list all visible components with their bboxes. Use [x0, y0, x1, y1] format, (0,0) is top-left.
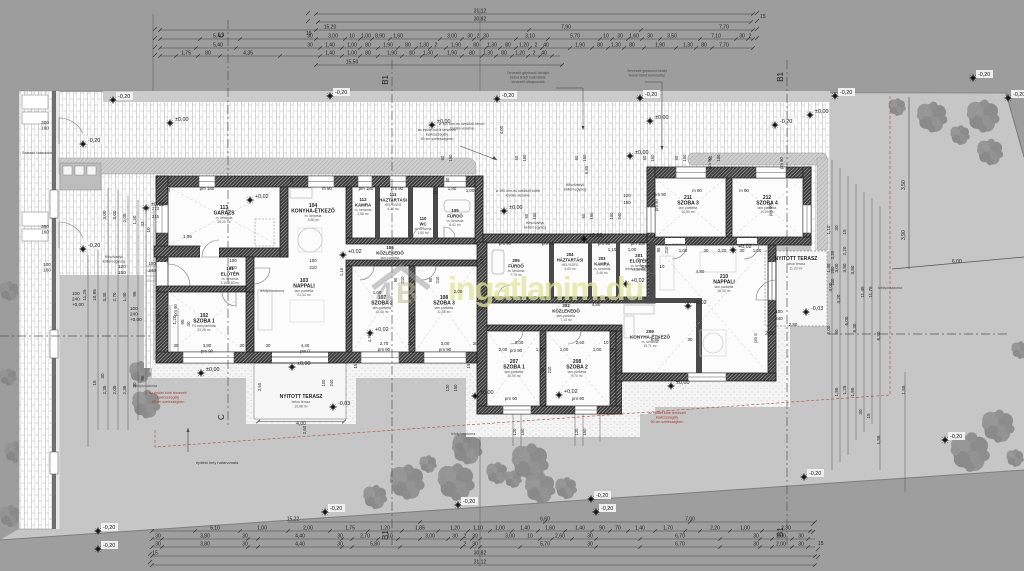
- section line B1b vertical dash-dot: [786, 60, 788, 545]
- wall garage south-left: [154, 246, 200, 257]
- svg-text:60: 60: [440, 155, 445, 160]
- svg-text:1,00: 1,00: [593, 347, 602, 352]
- level marker -0,20 at 775,125: [771, 121, 779, 129]
- svg-text:30: 30: [753, 541, 759, 547]
- svg-text:10: 10: [349, 33, 355, 39]
- svg-text:Szakadó kukaraktár: Szakadó kukaraktár: [22, 151, 53, 155]
- svg-text:kültéri egység: kültéri egység: [564, 187, 586, 191]
- svg-text:106: 106: [386, 245, 394, 250]
- svg-text:30: 30: [242, 541, 248, 547]
- svg-text:7,90: 7,90: [561, 24, 571, 30]
- room label 112 KAMRA: [355, 197, 372, 216]
- house floor right unit: [647, 167, 811, 245]
- svg-text:30: 30: [798, 533, 804, 539]
- svg-text:100: 100: [148, 261, 156, 266]
- svg-text:±0,00: ±0,00: [509, 205, 522, 211]
- svg-text:1,10: 1,10: [473, 525, 483, 531]
- level marker -0,20 at 98,531: [94, 527, 102, 535]
- left vertical dimension cluster: [88, 188, 178, 447]
- svg-text:30: 30: [858, 409, 863, 415]
- svg-text:60: 60: [514, 155, 519, 160]
- svg-text:112: 112: [359, 197, 367, 202]
- svg-text:1,55: 1,55: [876, 435, 881, 444]
- svg-text:2,00: 2,00: [776, 541, 786, 547]
- neighbour building strip (brick hatch): [19, 91, 52, 529]
- eaves band right side arm: [817, 158, 828, 250]
- svg-text:C: C: [217, 414, 226, 420]
- door szoba208 door: [568, 331, 581, 344]
- svg-text:3,80: 3,80: [842, 263, 847, 272]
- svg-text:160: 160: [41, 229, 49, 234]
- svg-text:5,80: 5,80: [370, 541, 380, 547]
- svg-text:+0,02: +0,02: [375, 327, 389, 333]
- svg-text:150: 150: [532, 212, 537, 220]
- svg-text:150: 150: [522, 154, 527, 162]
- level marker -0,20 at 640,98: [636, 94, 644, 102]
- svg-text:100: 100: [72, 291, 80, 296]
- svg-text:1,70: 1,70: [164, 313, 169, 322]
- svg-text:-0,20: -0,20: [780, 119, 792, 125]
- svg-text:KAMRA: KAMRA: [355, 202, 372, 207]
- level marker ±0,00 at 146,208: [142, 204, 150, 212]
- eaves overhang band left unit: [59, 158, 476, 174]
- room diagonals szoba211: [655, 178, 726, 237]
- svg-text:7,70: 7,70: [719, 42, 729, 48]
- svg-text:30: 30: [740, 248, 745, 253]
- svg-text:30,82: 30,82: [474, 550, 487, 556]
- svg-text:30: 30: [834, 225, 839, 231]
- tree 2: [917, 102, 948, 133]
- svg-text:pm 180: pm 180: [359, 186, 374, 191]
- svg-text:203: 203: [599, 256, 607, 261]
- svg-text:13,28 m²: 13,28 m²: [197, 328, 211, 332]
- svg-text:6,00: 6,00: [844, 316, 849, 325]
- svg-text:210: 210: [547, 366, 552, 374]
- dimension chain top row3: [158, 24, 755, 31]
- svg-text:pm 0: pm 0: [753, 333, 758, 343]
- svg-text:+0,00: +0,00: [72, 302, 84, 307]
- tree 1: [888, 98, 905, 116]
- room diagonals szoba208: [546, 331, 610, 406]
- house floor middle section: [477, 234, 655, 414]
- svg-text:240: 240: [148, 268, 156, 273]
- svg-text:9,70 m²: 9,70 m²: [571, 374, 583, 378]
- paved area around left terrace: [246, 356, 356, 424]
- door furdo205 door: [498, 285, 510, 297]
- door entry west: [168, 264, 190, 286]
- svg-text:4,70: 4,70: [367, 333, 372, 342]
- svg-text:10: 10: [387, 533, 393, 539]
- level marker ±0,00 at 584,239: [580, 235, 588, 243]
- svg-text:4,40: 4,40: [295, 541, 305, 547]
- svg-text:30: 30: [174, 343, 179, 348]
- svg-text:2,00: 2,00: [826, 325, 831, 334]
- tree 10: [419, 455, 436, 473]
- svg-text:150: 150: [453, 384, 458, 392]
- svg-text:273: 273: [152, 206, 160, 211]
- svg-text:Hőszivattyú: Hőszivattyú: [526, 221, 545, 225]
- svg-text:kifolyócsatorna: kifolyócsatorna: [878, 286, 902, 290]
- svg-text:pm 0: pm 0: [300, 349, 310, 354]
- svg-text:2,20: 2,20: [710, 525, 720, 531]
- svg-text:2,70: 2,70: [112, 292, 117, 301]
- svg-text:beton terasz: beton terasz: [292, 400, 311, 404]
- svg-text:1,40: 1,40: [520, 525, 530, 531]
- terrace sliding door gap: [272, 353, 328, 363]
- svg-text:pm 90: pm 90: [768, 204, 773, 216]
- svg-text:60: 60: [674, 155, 679, 160]
- svg-text:30: 30: [337, 533, 343, 539]
- svg-text:210: 210: [410, 316, 415, 324]
- svg-text:6,30: 6,30: [876, 331, 881, 340]
- svg-text:30: 30: [289, 177, 294, 182]
- svg-text:30: 30: [473, 341, 478, 346]
- svg-text:10,90 m²: 10,90 m²: [507, 374, 521, 378]
- level marker +0,02 at 559,395: [555, 391, 563, 399]
- svg-text:B1: B1: [776, 71, 785, 81]
- svg-text:-0,20: -0,20: [103, 525, 115, 531]
- svg-text:100: 100: [229, 258, 237, 263]
- svg-text:90: 90: [656, 247, 661, 252]
- room label 106 KÖZLEKEDŐ: [376, 245, 404, 264]
- svg-text:90: 90: [410, 297, 415, 302]
- room label 109 FÜRDŐ: [447, 208, 464, 227]
- room diagonals garage: [168, 187, 280, 246]
- tree 13: [453, 433, 473, 453]
- svg-text:30: 30: [798, 541, 804, 547]
- svg-text:30: 30: [445, 177, 450, 182]
- svg-text:31,12: 31,12: [474, 559, 487, 565]
- svg-text:30: 30: [100, 373, 105, 379]
- svg-text:KÖZLEKEDŐ: KÖZLEKEDŐ: [552, 308, 580, 313]
- svg-text:kavicsszegély: kavicsszegély: [656, 415, 678, 419]
- svg-text:11,75: 11,75: [868, 286, 873, 298]
- svg-text:1,90: 1,90: [383, 42, 393, 48]
- svg-text:±0,00: ±0,00: [635, 150, 648, 156]
- door garage-eloter: [202, 240, 219, 257]
- wall eloter-szoba1 partition: [158, 286, 252, 292]
- svg-text:6,60: 6,60: [540, 516, 550, 522]
- svg-text:1,40: 1,40: [635, 525, 645, 531]
- door gap entry west: [157, 262, 168, 286]
- svg-text:7,13 m²: 7,13 m²: [560, 318, 572, 322]
- terrace door gap right: [769, 262, 776, 300]
- svg-text:160: 160: [41, 125, 49, 130]
- svg-text:240: 240: [617, 212, 622, 220]
- svg-text:6,80: 6,80: [584, 165, 589, 174]
- svg-text:40: 40: [186, 321, 191, 327]
- door gap szoba3: [665, 238, 685, 244]
- room label 204 HÁZTARTÁSI: [557, 252, 583, 271]
- svg-text:az épület köré tervezett: az épület köré tervezett: [149, 391, 186, 395]
- wall left unit north exterior: [156, 176, 483, 187]
- svg-text:1,10: 1,10: [826, 225, 831, 234]
- svg-text:1,40: 1,40: [575, 525, 585, 531]
- svg-text:1,30: 1,30: [683, 42, 693, 48]
- entry steps west: [146, 266, 157, 281]
- furniture bath middle: [492, 250, 504, 274]
- svg-text:240: 240: [72, 297, 80, 302]
- svg-text:5,70: 5,70: [540, 541, 550, 547]
- dimension chain top row4: [158, 33, 755, 40]
- svg-text:-9,80 m²: -9,80 m²: [307, 218, 320, 222]
- window szoba212 north: [756, 167, 786, 178]
- svg-text:30,82: 30,82: [474, 16, 487, 22]
- arrow into paving from kavics note: [460, 146, 497, 160]
- svg-text:3,50: 3,50: [667, 33, 677, 39]
- svg-text:30: 30: [166, 187, 171, 192]
- level marker ±0,00 at 630,156: [626, 152, 634, 160]
- door szoba212 door: [744, 244, 759, 259]
- svg-text:15,50: 15,50: [346, 59, 359, 65]
- paved court top strip: [59, 92, 830, 176]
- svg-text:1,90: 1,90: [451, 42, 461, 48]
- svg-text:80: 80: [469, 50, 475, 56]
- paved band below middle rooms: [466, 356, 640, 437]
- svg-text:6,90: 6,90: [651, 337, 660, 342]
- svg-text:2,35: 2,35: [102, 385, 107, 394]
- tree 9: [390, 464, 425, 499]
- garage door gap: [200, 247, 219, 257]
- svg-text:10,40 m²: 10,40 m²: [375, 310, 389, 314]
- svg-text:3,80: 3,80: [850, 265, 855, 274]
- level marker -0,20 at 591,499: [587, 495, 595, 503]
- svg-text:+0,00: +0,00: [130, 317, 142, 322]
- svg-text:30: 30: [472, 541, 478, 547]
- svg-text:pm 90: pm 90: [391, 186, 404, 191]
- window hazt north: [390, 176, 406, 187]
- svg-text:80: 80: [701, 42, 707, 48]
- level marker +0,02 at 733,250: [729, 246, 737, 254]
- svg-text:2: 2: [749, 33, 752, 39]
- level marker -0,20 at 330,96: [326, 92, 334, 100]
- svg-text:B1: B1: [381, 74, 390, 84]
- svg-text:150: 150: [448, 154, 453, 162]
- room label 104 KONYHA-ÉTKEZŐ: [291, 203, 335, 222]
- svg-text:150: 150: [623, 200, 631, 205]
- wall szoba211-212 partition: [726, 178, 732, 237]
- svg-text:1,90: 1,90: [575, 42, 585, 48]
- tree 25: [4, 441, 26, 463]
- svg-text:pm 90: pm 90: [439, 347, 452, 352]
- svg-text:1,00: 1,00: [257, 525, 267, 531]
- svg-text:pm 90: pm 90: [173, 304, 178, 316]
- room label 205 FÜRDŐ: [508, 258, 525, 277]
- svg-text:80: 80: [405, 42, 411, 48]
- svg-text:+0,02: +0,02: [255, 194, 269, 200]
- room label 208 SZOBA 2: [566, 359, 588, 378]
- svg-text:240: 240: [130, 312, 138, 317]
- level marker ±0,00 at 475,396: [471, 392, 479, 400]
- dimension chain bottom row1: [287, 516, 817, 523]
- tree 20: [982, 410, 1015, 443]
- svg-text:±0,00: ±0,00: [655, 115, 668, 121]
- svg-text:1,85: 1,85: [415, 525, 425, 531]
- svg-text:2,00: 2,00: [776, 533, 786, 539]
- wall eloter201 east wall: [649, 242, 655, 303]
- svg-text:30: 30: [584, 299, 589, 304]
- svg-text:80: 80: [205, 50, 211, 56]
- svg-text:10,95: 10,95: [92, 289, 97, 301]
- room diagonals szoba1: [169, 292, 246, 352]
- level marker -0,20 at 835,96: [831, 92, 839, 100]
- svg-text:1,00: 1,00: [740, 525, 750, 531]
- svg-text:-0,20: -0,20: [840, 90, 852, 96]
- svg-text:3,00: 3,00: [505, 533, 515, 539]
- svg-text:-0,20: -0,20: [88, 138, 100, 144]
- paved band below right unit: [616, 374, 790, 407]
- svg-text:pm 90: pm 90: [654, 199, 659, 211]
- svg-text:építési hely határvonala: építési hely határvonala: [196, 460, 239, 465]
- wall middle north wall: [483, 234, 655, 243]
- svg-text:50 cm szélességben: 50 cm szélességben: [152, 400, 185, 404]
- svg-text:1,00: 1,00: [560, 347, 569, 352]
- svg-text:4,00: 4,00: [296, 421, 306, 427]
- svg-text:31,12: 31,12: [474, 8, 487, 14]
- room label nyitott terasz left: [280, 394, 323, 408]
- level marker ±0,00 at 810,115: [806, 111, 814, 119]
- svg-text:10: 10: [660, 264, 665, 269]
- svg-text:KÖZLEKEDŐ: KÖZLEKEDŐ: [376, 250, 404, 255]
- room label 107 SZOBA 2: [371, 295, 393, 314]
- svg-text:30: 30: [467, 33, 473, 39]
- svg-text:1,00: 1,00: [361, 33, 371, 39]
- paved left door area: [59, 92, 160, 275]
- svg-text:210: 210: [477, 306, 485, 311]
- svg-text:2,00: 2,00: [499, 347, 508, 352]
- svg-text:2: 2: [477, 33, 480, 39]
- room label 209 KONYHA-ÉTKEZŐ: [630, 329, 670, 348]
- svg-text:1,00: 1,00: [536, 347, 545, 352]
- svg-text:15: 15: [152, 550, 158, 556]
- svg-text:pm 90: pm 90: [707, 157, 712, 169]
- tree 12: [452, 434, 483, 465]
- svg-text:70: 70: [615, 525, 621, 531]
- furniture dining right: [700, 330, 726, 356]
- svg-text:pm 90: pm 90: [505, 396, 518, 401]
- svg-text:FÜRDŐ: FÜRDŐ: [508, 263, 524, 268]
- svg-text:-0,20: -0,20: [978, 72, 990, 78]
- wall garage south-right: [219, 248, 288, 257]
- dimension chain bottom row6: [150, 559, 817, 566]
- leader line gepkocsi beallo: [645, 81, 662, 83]
- svg-text:1,50 m²: 1,50 m²: [417, 231, 429, 235]
- svg-text:tervezett útkapcsolat: tervezett útkapcsolat: [512, 80, 545, 84]
- furniture kitchen counter left: [290, 188, 312, 198]
- svg-text:90: 90: [599, 525, 605, 531]
- svg-text:8,90: 8,90: [375, 33, 385, 39]
- door nappali-szoba1: [222, 292, 236, 306]
- svg-text:18,20 m²: 18,20 m²: [217, 220, 231, 224]
- window szoba212 east: [803, 205, 811, 233]
- wall middle west exterior: [477, 242, 487, 414]
- svg-text:1,20: 1,20: [380, 525, 390, 531]
- wall szoba2-szoba3 partition: [409, 266, 415, 359]
- svg-text:11,20 m²: 11,20 m²: [789, 266, 803, 270]
- wall szoba207-208 partition: [540, 331, 546, 406]
- wall kozlekedo south wall: [346, 260, 483, 266]
- plot centre vertical line bottom: [479, 437, 481, 567]
- svg-text:pm 180: pm 180: [631, 241, 646, 246]
- svg-text:WC: WC: [420, 221, 427, 226]
- svg-text:1,00: 1,00: [679, 248, 688, 253]
- svg-text:1,20: 1,20: [519, 42, 529, 48]
- right vertical dimension cluster: [832, 160, 880, 470]
- svg-text:3,10 3,80 m²: 3,10 3,80 m²: [220, 281, 240, 285]
- svg-text:15: 15: [842, 229, 847, 235]
- level marker ±0,00 at 170,123: [166, 119, 174, 127]
- svg-text:3,00: 3,00: [515, 340, 524, 345]
- svg-text:1,15: 1,15: [479, 255, 484, 264]
- level marker ±0,00 at 671,386: [667, 382, 675, 390]
- svg-text:100: 100: [130, 306, 138, 311]
- svg-text:150: 150: [118, 270, 126, 275]
- dimension chain top row6: [158, 50, 560, 57]
- short vertical measure lines below jut: [513, 372, 905, 492]
- level marker -0,20 at 596,512: [592, 508, 600, 516]
- room diagonals szoba3: [415, 266, 475, 352]
- svg-text:210: 210: [400, 276, 405, 284]
- room label 113 GARÁZS: [213, 205, 235, 224]
- svg-text:-0,20: -0,20: [463, 499, 475, 505]
- svg-text:95: 95: [132, 291, 137, 297]
- svg-text:30: 30: [688, 337, 693, 342]
- tree 11: [438, 463, 475, 501]
- door szoba207 door: [510, 331, 523, 344]
- svg-text:209: 209: [646, 329, 654, 334]
- svg-text:5,70: 5,70: [570, 33, 580, 39]
- tree 23: [0, 281, 19, 301]
- svg-text:30: 30: [739, 33, 745, 39]
- wall kozlekedo202 south wall: [487, 325, 622, 331]
- door kozlekedo-szoba3: [422, 266, 436, 280]
- tree 22: [1011, 341, 1024, 359]
- paved strip east of right unit: [776, 296, 790, 407]
- svg-text:150: 150: [682, 154, 687, 162]
- plot centre vertical line top: [479, 8, 481, 91]
- svg-text:-0,20: -0,20: [1013, 92, 1024, 98]
- svg-text:240: 240: [775, 316, 783, 321]
- svg-text:10: 10: [408, 341, 413, 346]
- svg-text:11,45: 11,45: [860, 286, 865, 298]
- paved strip along west house wall: [144, 170, 162, 368]
- svg-text:beton térkő burkolattal: beton térkő burkolattal: [629, 73, 665, 77]
- svg-text:150: 150: [582, 154, 587, 162]
- svg-text:4,80: 4,80: [696, 269, 705, 274]
- tree 7: [132, 390, 160, 419]
- room diagonals nappali210: [655, 245, 768, 373]
- svg-text:Tervezett gépkocsi behajtó: Tervezett gépkocsi behajtó: [507, 71, 550, 75]
- svg-text:90: 90: [348, 297, 353, 302]
- svg-text:60: 60: [610, 347, 615, 352]
- wall furdo205-hazt204 partition: [549, 242, 554, 297]
- room label nyitott terasz right: [775, 256, 818, 270]
- svg-text:95: 95: [180, 319, 185, 325]
- svg-text:-0,20: -0,20: [118, 94, 130, 100]
- svg-text:pm 90: pm 90: [654, 192, 667, 197]
- wall szoba208 east wall: [610, 331, 616, 406]
- svg-text:FÜRDŐ: FÜRDŐ: [447, 213, 463, 218]
- tree 14: [486, 462, 508, 484]
- svg-text:pm 90: pm 90: [542, 241, 555, 246]
- level marker -0,03 at 806,312: [802, 308, 810, 316]
- door kozlekedo-szoba2: [360, 266, 374, 280]
- door szoba211 door: [672, 244, 687, 259]
- svg-text:1,80: 1,80: [448, 186, 457, 191]
- wall konyha east partition: [346, 187, 352, 238]
- tree 26: [0, 505, 21, 527]
- dimension chain bottom row4: [150, 541, 815, 548]
